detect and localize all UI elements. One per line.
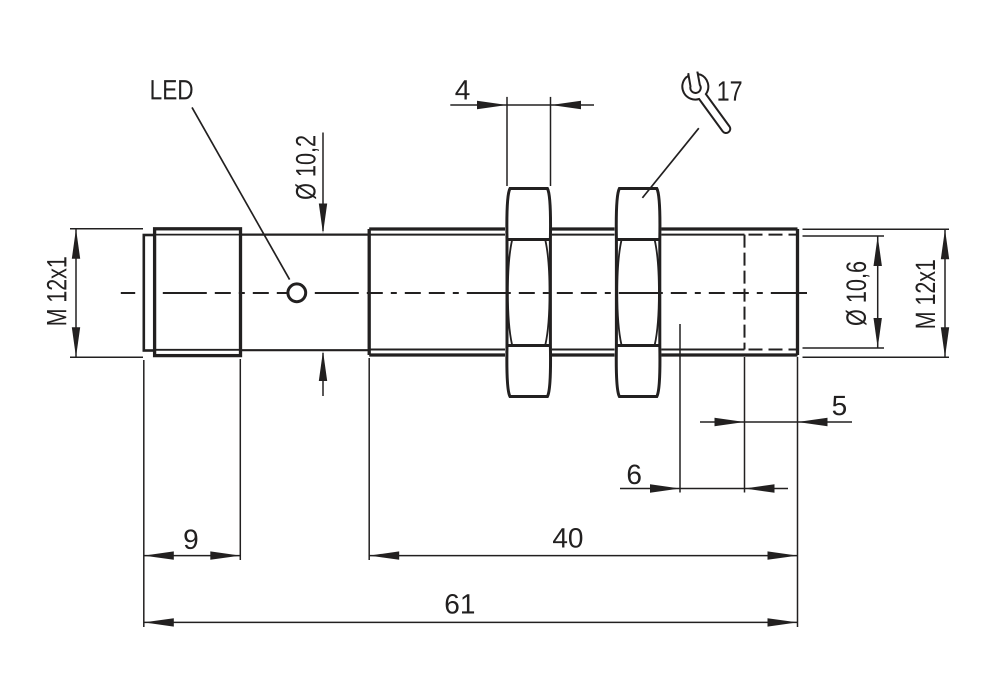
svg-text:4: 4 [455,74,471,105]
hidden insert dashed top [749,234,798,236]
connector cap body [155,229,241,356]
extension line x=797.5 (dims 5,40,61) [797,357,799,627]
dim dia 10,6: dimension line [877,236,879,348]
svg-text:Ø 10,6: Ø 10,6 [841,261,872,326]
cap chamfer line bottom [156,349,240,351]
dim dia 10,6: extension lines [803,235,885,237]
hidden insert dashed bottom [749,349,798,351]
centerline [121,292,135,294]
LED leader line [192,107,290,279]
svg-text:9: 9 [183,524,199,555]
nut 1 [507,189,551,397]
threaded barrel left step [368,229,371,355]
dim 4: dimension line [450,104,594,106]
connector end face (recessed rect) [144,235,155,351]
barrel bottom edge (interrupted by nuts) [369,353,505,356]
svg-text:61: 61 [444,588,475,619]
LED indicator circle [288,284,306,302]
dim 6: dimension line [620,488,788,490]
dim M12x1 left: extension lines [70,228,143,230]
dim M12x1 right: extension lines [803,228,950,230]
svg-text:M 12x1: M 12x1 [910,259,941,329]
svg-text:5: 5 [832,390,848,421]
mid section bottom edge [241,349,370,351]
dim 4: extension lines [506,97,508,186]
dim M12x1 right: dimension line [944,229,946,357]
mid section top edge [241,234,370,236]
extension line x=240.3 (dim 9) [239,359,241,560]
barrel top edge (interrupted by nuts) [369,227,505,230]
cap chamfer line top [156,234,240,236]
dim M12x1 left: dimension line [75,229,77,357]
dia 10,2 lower dimension line [322,353,324,396]
svg-text:Ø 10,2: Ø 10,2 [290,135,321,200]
svg-text:40: 40 [552,523,583,554]
threaded barrel right end face [796,229,799,355]
dim 40: dimension line [369,555,797,557]
extension line x=744.5 (dims 5,6) [744,357,746,493]
wrench leader line [642,128,698,198]
extension line x=680 (dim 6) [679,324,681,493]
dim 61: dimension line [144,621,798,623]
svg-text:6: 6 [626,459,642,490]
thread root line bottom [369,349,505,351]
dia 10,2 upper dimension line [322,133,324,232]
svg-text:17: 17 [717,76,743,107]
dim 9: dimension line [144,555,241,557]
extension line x=369.2 (dim 40) [368,358,370,560]
wrench icon [682,72,730,133]
hidden insert dashed vertical [744,235,746,350]
extension line x=143.8 (dims 9,61) [143,360,145,627]
thread root line top [369,234,505,236]
svg-text:M 12x1: M 12x1 [41,256,72,326]
dim 5: dimension line [700,421,852,423]
svg-text:LED: LED [150,74,194,105]
nut 2 [616,189,660,397]
